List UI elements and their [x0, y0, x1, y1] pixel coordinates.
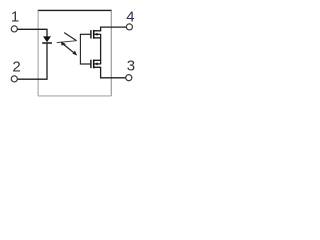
LED cathode bar — [42, 42, 52, 44]
Q2 gate bar — [90, 60, 92, 68]
wire Q2 drain to pin 3 — [101, 67, 126, 78]
zigzag stroke 1 — [64, 33, 76, 41]
Q2 body arrow — [94, 62, 97, 65]
Q1 drain stub — [94, 30, 101, 32]
Q1 gate bar — [90, 30, 92, 38]
light emission zigzag arrow — [57, 33, 77, 56]
box bottom edge — [38, 95, 111, 97]
LED triangle — [43, 36, 51, 42]
wire Q1 drain to pin 4 — [101, 27, 127, 31]
box right edge — [110, 10, 112, 96]
svg-text:2: 2 — [12, 59, 20, 76]
Q1 channel bar — [93, 30, 95, 39]
Q2 drain stub — [94, 66, 101, 68]
box left edge — [37, 10, 39, 96]
pin 1 terminal circle — [11, 26, 17, 32]
pin 2 terminal circle — [11, 76, 17, 82]
wire pin1 to LED anode — [18, 29, 48, 36]
zigzag arrowhead — [72, 51, 77, 56]
Q2 channel bar — [93, 60, 95, 69]
MOSFET Q1 (top, drain to pin 4) — [91, 30, 101, 39]
gate lead Q2 — [80, 63, 91, 65]
pin 4 terminal circle — [126, 24, 132, 30]
MOSFET Q2 (bottom, drain to pin 3) — [91, 60, 101, 69]
svg-text:4: 4 — [126, 8, 134, 25]
svg-text:1: 1 — [11, 8, 19, 25]
common source wire — [100, 34, 102, 64]
pin 3 terminal circle — [126, 75, 132, 81]
Q1 body stub — [94, 33, 101, 35]
LED D1 (anode top, cathode bottom) — [42, 36, 52, 43]
wire LED cathode to pin 2 — [17, 44, 47, 80]
svg-text:3: 3 — [127, 58, 135, 75]
gate lead Q1 — [80, 33, 91, 35]
zigzag stroke 3 — [64, 45, 75, 54]
box top edge — [38, 9, 112, 11]
package box outline — [38, 10, 112, 96]
zigzag mid barb — [61, 41, 66, 45]
zigzag stroke 2 — [57, 41, 77, 43]
Q2 source stub — [94, 59, 101, 61]
common gate line — [79, 34, 81, 64]
Q1 source stub — [94, 37, 101, 39]
Q1 body arrow — [94, 33, 97, 36]
Q2 body stub — [94, 63, 101, 65]
